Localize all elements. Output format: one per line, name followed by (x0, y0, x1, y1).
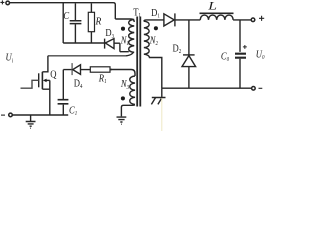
svg-text:D4: D4 (74, 77, 83, 90)
svg-text:D2: D2 (173, 42, 182, 55)
svg-text:U0: U0 (256, 49, 265, 62)
svg-text:L: L (207, 0, 217, 13)
svg-text:D1: D1 (151, 7, 160, 20)
svg-text:N2: N2 (149, 35, 158, 48)
svg-text:C: C (63, 10, 69, 22)
svg-text:R1: R1 (98, 73, 107, 86)
svg-text:C0: C0 (221, 51, 229, 64)
svg-text:T1: T1 (133, 7, 141, 20)
svg-text:N3: N3 (120, 78, 129, 91)
svg-text:N1: N1 (120, 35, 129, 48)
svg-text:R: R (95, 16, 102, 28)
svg-text:C1: C1 (69, 104, 77, 117)
svg-text:D3: D3 (105, 27, 114, 40)
svg-text:Ui: Ui (6, 52, 14, 65)
svg-text:Q: Q (50, 69, 56, 81)
